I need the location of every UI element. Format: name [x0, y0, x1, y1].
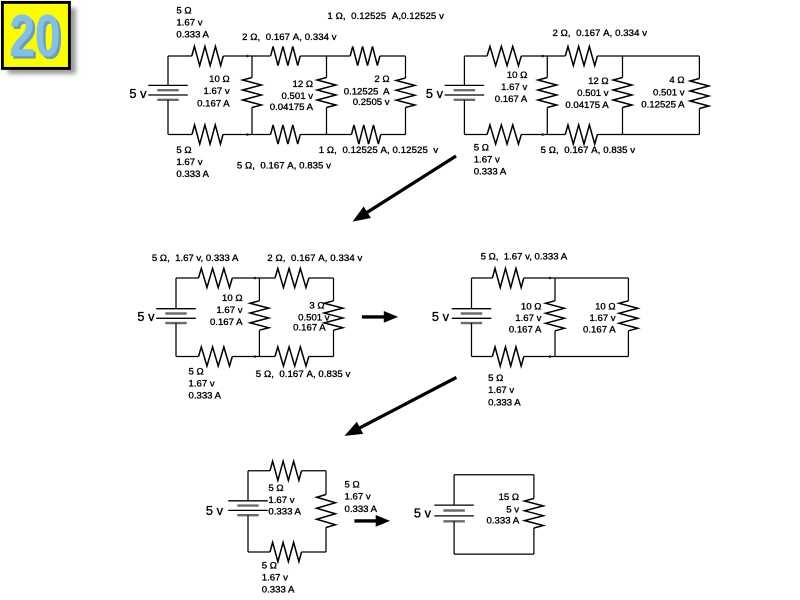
svg-text:0.167 A: 0.167 A: [210, 317, 243, 328]
wire c6 bottom segment: [454, 553, 534, 555]
resistor c3 R2 2Ω top-right: [275, 268, 309, 287]
resistor c2 R7 4Ω right branch: [690, 79, 709, 109]
svg-text:0.333 A: 0.333 A: [176, 169, 209, 180]
wire c3 top-right segment: [309, 277, 334, 279]
wire c2 branch1 top lead: [546, 56, 548, 78]
wire c1 top-right segment: [380, 55, 406, 57]
wire c4 bottom-left segment: [472, 356, 493, 358]
wire c3 left top segment: [175, 278, 177, 309]
battery c1 B1 5v: [148, 85, 188, 99]
svg-text:4 Ω: 4 Ω: [669, 75, 684, 86]
label c4 R1 values: [481, 252, 568, 263]
wire c4 top-right segment: [524, 277, 629, 279]
wire c3 top segment node A: [232, 277, 275, 279]
label c2 R4 values: [541, 145, 636, 156]
resistor c1 R1 5Ω top-left: [192, 46, 224, 65]
resistor c5 R3 5Ω right branch: [317, 495, 336, 528]
resistor c4 R2 5Ω bottom: [492, 347, 523, 366]
label c5 R1 values: [268, 483, 301, 518]
resistor c1 R6 1Ω bottom-right: [352, 125, 381, 144]
svg-text:5 Ω: 5 Ω: [262, 560, 277, 571]
svg-text:0.333 A: 0.333 A: [487, 516, 520, 527]
svg-text:5 Ω, 0.167 A, 0.835 v: 5 Ω, 0.167 A, 0.835 v: [541, 145, 636, 156]
wire c4 branch bottom lead: [554, 331, 556, 357]
svg-text:5 Ω: 5 Ω: [488, 373, 503, 384]
svg-text:1.67 v: 1.67 v: [268, 495, 294, 506]
label c4 battery 5v: [432, 309, 450, 324]
svg-text:10 Ω: 10 Ω: [595, 302, 616, 313]
wire c2 left top segment: [463, 56, 465, 85]
svg-text:0.12525 A: 0.12525 A: [344, 86, 390, 97]
junction c4 node A top: [549, 277, 552, 280]
label c3 R3 values: [189, 367, 222, 402]
label c2 R2 values: [553, 28, 648, 39]
resistor c2 R5 10Ω branch1: [538, 78, 557, 108]
svg-text:0.501 v: 0.501 v: [282, 91, 314, 102]
svg-text:0.333 A: 0.333 A: [268, 507, 301, 518]
wire c5 top-right segment: [302, 470, 327, 472]
svg-text:5 v: 5 v: [432, 309, 450, 324]
label c2 R5 values: [495, 70, 528, 105]
junction c4 node A bottom: [549, 355, 552, 358]
resistor c2 R3 5Ω bottom-left: [487, 125, 521, 144]
label c2 R3 values: [474, 142, 507, 177]
label c6 battery 5v: [414, 505, 432, 520]
battery c3 B1 5v: [156, 309, 196, 323]
svg-text:5 v: 5 v: [414, 505, 432, 520]
wire c6 left top segment: [453, 475, 455, 505]
resistor c1 R9 2Ω right branch: [396, 78, 415, 108]
label c1 battery 5v: [129, 86, 147, 101]
wire c5 right top lead: [325, 471, 327, 495]
resistor c2 R6 12Ω branch2: [613, 78, 632, 108]
wire c5 left top segment: [247, 471, 249, 501]
wire c2 branch2 top lead: [622, 56, 624, 78]
svg-text:0.333 A: 0.333 A: [345, 504, 378, 515]
svg-text:1.67 v: 1.67 v: [488, 385, 514, 396]
arrow step3 simplify: [354, 515, 390, 527]
resistor c1 R8 12Ω branch2: [317, 78, 336, 108]
svg-text:5 Ω, 0.167 A, 0.835 v: 5 Ω, 0.167 A, 0.835 v: [256, 369, 351, 380]
wire c2 branch2 bottom lead: [622, 108, 624, 135]
svg-text:10 Ω: 10 Ω: [521, 302, 542, 313]
svg-text:1.67 v: 1.67 v: [176, 157, 202, 168]
wire c6 left bottom segment: [453, 521, 455, 554]
junction c3 node A bottom: [254, 355, 257, 358]
slide number badge box: [2, 2, 69, 68]
wire c6 top segment: [454, 474, 534, 476]
wire c4 branch top lead: [554, 278, 556, 301]
wire c1 branch2 bottom lead: [326, 108, 328, 135]
label c1 R2 values: [242, 32, 337, 43]
label c5 R3 values: [345, 479, 378, 514]
label c3 battery 5v: [137, 309, 155, 324]
wire c5 left bottom segment: [247, 515, 249, 552]
svg-text:5 Ω, 0.167 A, 0.835 v: 5 Ω, 0.167 A, 0.835 v: [237, 161, 331, 172]
resistor c2 R1 5Ω top-left: [487, 46, 521, 65]
resistor c1 R5 5Ω bottom-middle: [271, 125, 301, 144]
label c1 R5 values: [237, 161, 331, 172]
wire c2 left bottom segment: [463, 100, 465, 135]
junction c1 node A top: [246, 55, 249, 58]
wire c1 top segment node A: [223, 55, 270, 57]
battery c4 B1 5v: [452, 309, 492, 323]
svg-text:0.333 A: 0.333 A: [262, 584, 295, 595]
svg-text:0.333 A: 0.333 A: [488, 397, 521, 408]
label c4 R2 values: [488, 373, 521, 408]
svg-text:5 Ω, 1.67 v, 0.333 A: 5 Ω, 1.67 v, 0.333 A: [152, 253, 239, 264]
arrow step2 to step3: [345, 377, 457, 436]
resistor c4 R4 10Ω right branch: [619, 301, 638, 331]
wire c3 bottom segment node A: [232, 356, 275, 358]
wire c1 left top segment: [167, 56, 169, 85]
resistor c4 R1 5Ω top: [492, 268, 523, 287]
svg-text:1.67 v: 1.67 v: [589, 313, 615, 324]
slide number 20 text shadow: [12, 6, 63, 72]
resistor c1 R3 1Ω top-right: [350, 46, 380, 65]
label c1 R8 values: [270, 79, 314, 113]
resistor c4 R3 10Ω branch: [546, 301, 565, 331]
label c1 R1 values: [176, 5, 209, 40]
svg-text:12 Ω: 12 Ω: [588, 76, 609, 87]
resistor c2 R4 5Ω bottom-right: [565, 125, 597, 144]
svg-text:12 Ω: 12 Ω: [292, 79, 313, 90]
label c1 R7 values: [197, 74, 230, 109]
wire c2 bottom segment node A: [521, 134, 565, 136]
wire c1 bottom segment node A: [223, 134, 271, 136]
wire c2 top-right segment: [597, 55, 699, 57]
wire c3 bottom-left segment: [176, 356, 199, 358]
resistor c3 R6 3Ω right branch: [324, 301, 343, 330]
svg-text:1.67 v: 1.67 v: [501, 82, 527, 93]
svg-text:5 Ω: 5 Ω: [189, 367, 204, 378]
wire c1 branch2 top lead: [326, 56, 328, 78]
svg-text:5 Ω: 5 Ω: [176, 5, 191, 16]
wire c1 right top lead: [405, 56, 407, 78]
wire c2 bottom-left segment: [464, 134, 487, 136]
svg-text:1.67 v: 1.67 v: [189, 379, 215, 390]
svg-text:1.67 v: 1.67 v: [176, 17, 202, 28]
wire c3 left bottom segment: [175, 323, 177, 356]
wire c1 left bottom segment: [167, 100, 169, 135]
label c1 R6 values: [319, 145, 439, 156]
label c1 R9 values: [344, 74, 390, 108]
svg-text:5 Ω: 5 Ω: [474, 142, 489, 153]
wire c3 branch top lead: [258, 278, 260, 301]
wire c1 branch1 top lead: [251, 56, 253, 78]
svg-text:5 v: 5 v: [137, 309, 155, 324]
battery c5 B1 5v: [228, 501, 268, 515]
resistor c5 R2 5Ω bottom: [270, 542, 302, 561]
svg-text:0.04175 A: 0.04175 A: [270, 102, 314, 113]
label c1 R4 values: [176, 145, 209, 180]
svg-text:0.167 A: 0.167 A: [197, 98, 230, 109]
wire c5 top-left segment: [248, 470, 270, 472]
battery c6 B1 5v: [434, 505, 474, 521]
resistor c3 R1 5Ω top-left: [199, 268, 233, 287]
wire c2 top segment node A: [521, 55, 565, 57]
junction c1 node A bottom: [246, 133, 249, 136]
resistor c3 R3 5Ω bottom-left: [199, 347, 233, 366]
svg-text:3 Ω: 3 Ω: [309, 300, 324, 311]
wire c2 right bottom lead: [698, 109, 700, 135]
label c5 R2 values: [262, 560, 295, 595]
wire c1 top-left segment: [168, 55, 192, 57]
svg-text:2 Ω, 0.167 A, 0.334 v: 2 Ω, 0.167 A, 0.334 v: [242, 32, 337, 43]
svg-text:5 Ω, 1.67 v, 0.333 A: 5 Ω, 1.67 v, 0.333 A: [481, 252, 568, 263]
arrow step1 to step2: [353, 156, 457, 222]
junction c2 node A top: [541, 55, 544, 58]
wire c3 bottom-right segment: [309, 356, 334, 358]
wire c4 right top lead: [627, 278, 629, 301]
svg-text:5 v: 5 v: [426, 86, 444, 101]
svg-text:0.333 A: 0.333 A: [474, 166, 507, 177]
svg-text:15 Ω: 15 Ω: [499, 492, 520, 503]
slide number 20 text: [9, 3, 60, 69]
svg-text:0.167 A: 0.167 A: [583, 324, 616, 335]
wire c5 bottom-left segment: [248, 551, 270, 553]
slide number badge shadow: [8, 8, 76, 74]
wire c4 left bottom segment: [471, 323, 473, 356]
svg-text:5 v: 5 v: [206, 503, 224, 518]
svg-text:10 Ω: 10 Ω: [222, 293, 243, 304]
svg-text:0.167 A: 0.167 A: [495, 94, 528, 105]
label c2 battery 5v: [426, 86, 444, 101]
svg-text:2 Ω, 0.167 A, 0.334 v: 2 Ω, 0.167 A, 0.334 v: [267, 253, 362, 264]
svg-text:1 Ω, 0.12525 A,0.12525 v: 1 Ω, 0.12525 A,0.12525 v: [327, 11, 444, 22]
wire c2 bottom-right segment: [597, 134, 699, 136]
resistor c5 R1 5Ω top: [270, 461, 302, 480]
svg-text:5 Ω: 5 Ω: [176, 145, 191, 156]
svg-text:0.04175 A: 0.04175 A: [565, 100, 609, 111]
label c4 R3 values: [509, 302, 542, 336]
wire c5 right bottom lead: [325, 528, 327, 553]
label c2 R6 values: [565, 76, 609, 111]
label c4 R4 values: [583, 302, 616, 336]
svg-text:10 Ω: 10 Ω: [209, 74, 230, 85]
wire c5 bottom-right segment: [302, 551, 327, 553]
svg-text:20: 20: [9, 3, 60, 69]
label c3 R2 values: [267, 253, 362, 264]
junction c3 node A top: [254, 277, 257, 280]
wire c4 right bottom lead: [627, 331, 629, 357]
wire c4 bottom-right segment: [524, 356, 629, 358]
svg-text:0.333 A: 0.333 A: [176, 30, 209, 41]
label c3 R1 values: [152, 253, 239, 264]
svg-text:1.67 v: 1.67 v: [474, 154, 500, 165]
wire c3 right bottom lead: [333, 330, 335, 356]
svg-text:2 Ω, 0.167 A, 0.334 v: 2 Ω, 0.167 A, 0.334 v: [553, 28, 648, 39]
wire c6 right top lead: [533, 475, 535, 499]
svg-text:10 Ω: 10 Ω: [507, 70, 528, 81]
svg-text:2 Ω: 2 Ω: [374, 74, 389, 85]
label c1 R3 values: [327, 11, 444, 22]
wire c1 branch1 bottom lead: [251, 108, 253, 135]
wire c1 bottom-right segment: [381, 134, 406, 136]
label c6 R1 values: [487, 492, 520, 526]
wire c2 branch1 bottom lead: [546, 108, 548, 135]
wire c2 top-left segment: [464, 55, 487, 57]
svg-text:1.67 v: 1.67 v: [262, 572, 288, 583]
svg-text:0.167 A: 0.167 A: [293, 323, 326, 334]
wire c3 right top lead: [333, 278, 335, 301]
wire c1 right bottom lead: [405, 108, 407, 135]
wire c3 branch bottom lead: [258, 330, 260, 356]
wire c1 top segment node B: [300, 55, 350, 57]
wire c4 left top segment: [471, 278, 473, 309]
label c3 R4 values: [256, 369, 351, 380]
svg-text:5 v: 5 v: [129, 86, 147, 101]
svg-text:1.67 v: 1.67 v: [515, 313, 541, 324]
arrow step2 simplify: [362, 311, 398, 323]
resistor c3 R5 10Ω branch: [250, 301, 269, 330]
svg-text:0.501 v: 0.501 v: [577, 88, 609, 99]
svg-text:0.2505 v: 0.2505 v: [353, 97, 390, 108]
wire c1 bottom segment node B: [300, 134, 351, 136]
svg-text:0.333 A: 0.333 A: [189, 391, 222, 402]
svg-text:1.67 v: 1.67 v: [345, 492, 371, 503]
wire c1 bottom-left segment: [168, 134, 192, 136]
resistor c2 R2 2Ω top-right: [565, 46, 597, 65]
wire c6 right bottom lead: [533, 528, 535, 554]
svg-text:5 Ω: 5 Ω: [268, 483, 283, 494]
label c3 R5 values: [210, 293, 243, 328]
battery c2 B1 5v: [445, 85, 485, 99]
svg-text:5 Ω: 5 Ω: [345, 479, 360, 490]
resistor c6 R1 15Ω: [525, 499, 544, 529]
wire c3 top-left segment: [176, 277, 199, 279]
junction c2 node A bottom: [541, 133, 544, 136]
resistor c3 R4 5Ω bottom-right: [275, 347, 309, 366]
wire c2 right top lead: [698, 56, 700, 79]
svg-text:1.67 v: 1.67 v: [216, 305, 242, 316]
svg-text:5 v: 5 v: [506, 504, 519, 515]
svg-text:1.67 v: 1.67 v: [204, 86, 230, 97]
svg-text:0.167 A: 0.167 A: [509, 324, 542, 335]
label c5 battery 5v: [206, 503, 224, 518]
svg-text:0.12525 A: 0.12525 A: [641, 100, 685, 111]
svg-text:0.501 v: 0.501 v: [653, 87, 685, 98]
resistor c1 R2 2Ω top-middle: [271, 46, 301, 65]
resistor c1 R7 10Ω branch1: [243, 78, 262, 108]
resistor c1 R4 5Ω bottom-left: [192, 125, 223, 144]
label c3 R6 values: [293, 300, 330, 333]
label c2 R7 values: [641, 75, 685, 111]
wire c4 top-left segment: [472, 277, 493, 279]
svg-text:1 Ω, 0.12525 A, 0.12525 v: 1 Ω, 0.12525 A, 0.12525 v: [319, 145, 439, 156]
